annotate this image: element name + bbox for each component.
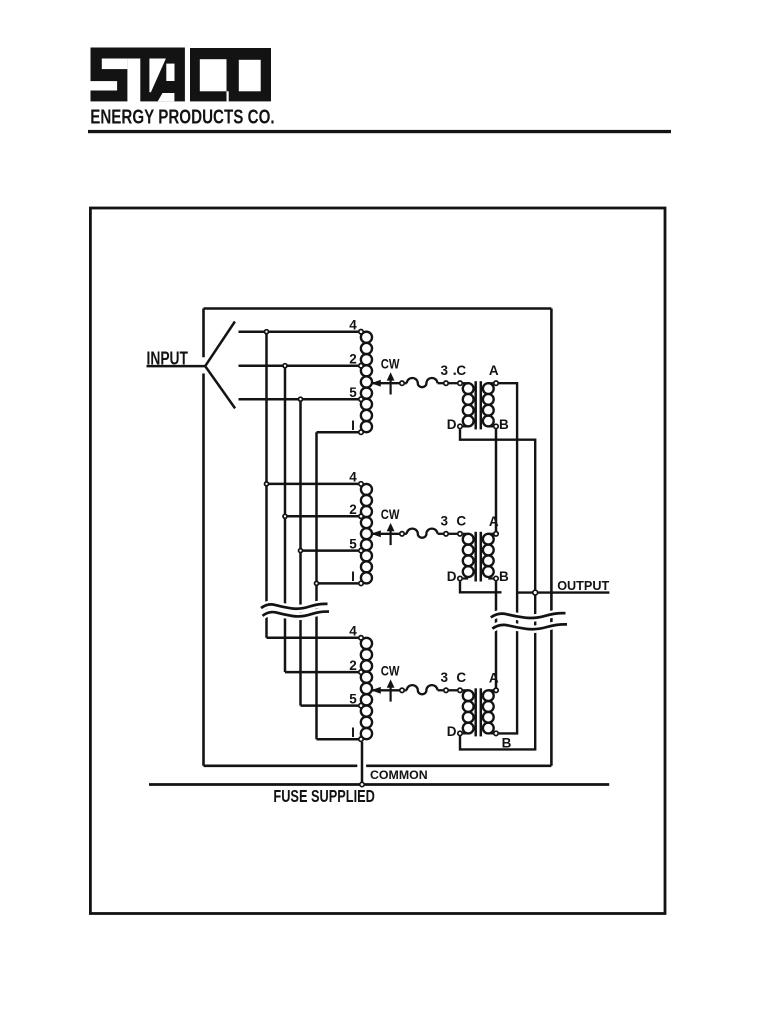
svg-text:B: B [499, 417, 509, 432]
svg-text:INPUT: INPUT [147, 348, 189, 369]
svg-text:D: D [447, 417, 457, 432]
svg-text:5: 5 [349, 385, 357, 400]
svg-text:ENERGY PRODUCTS CO.: ENERGY PRODUCTS CO. [90, 106, 274, 129]
svg-text:4: 4 [349, 624, 357, 639]
svg-text:3: 3 [440, 670, 448, 685]
svg-text:C: C [456, 670, 466, 685]
svg-text:OUTPUT: OUTPUT [557, 578, 609, 593]
svg-text:5: 5 [349, 536, 357, 551]
svg-text:4: 4 [349, 318, 357, 333]
svg-text:5: 5 [349, 691, 357, 706]
svg-text:2: 2 [349, 658, 357, 673]
svg-text:I: I [351, 418, 355, 433]
svg-text:C: C [456, 514, 466, 529]
svg-text:C: C [456, 363, 466, 378]
svg-text:COMMON: COMMON [370, 768, 428, 782]
svg-text:FUSE SUPPLIED: FUSE SUPPLIED [273, 786, 375, 806]
svg-text:I: I [351, 725, 355, 740]
svg-text:4: 4 [349, 470, 357, 485]
svg-text:CW: CW [381, 664, 400, 680]
svg-text:3: 3 [440, 363, 448, 378]
svg-text:A: A [489, 363, 499, 378]
svg-text:2: 2 [349, 502, 357, 517]
svg-text:A: A [489, 514, 499, 529]
svg-text:2: 2 [349, 352, 357, 367]
svg-text:CW: CW [381, 356, 400, 372]
svg-text:A: A [489, 670, 499, 685]
svg-text:D: D [447, 724, 457, 739]
svg-text:3: 3 [440, 514, 448, 529]
svg-text:CW: CW [381, 507, 400, 523]
svg-text:I: I [351, 569, 355, 584]
svg-text:D: D [447, 569, 457, 584]
svg-text:B: B [499, 569, 509, 584]
